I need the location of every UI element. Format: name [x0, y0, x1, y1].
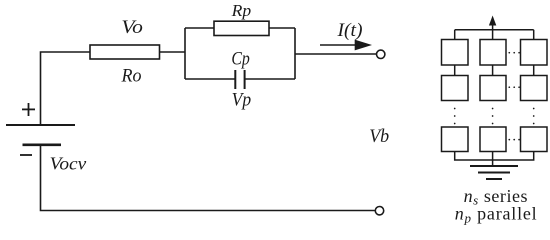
battery positive plate — [6, 124, 75, 126]
wire — [41, 52, 91, 125]
dots col2 vertical — [492, 108, 494, 125]
cell row1 col1 — [442, 40, 469, 66]
dots row1 — [508, 52, 520, 54]
terminal negative — [375, 207, 383, 215]
wire — [295, 53, 377, 55]
battery negative plate — [23, 144, 62, 147]
ground — [470, 166, 518, 179]
dots col1 vertical — [454, 108, 456, 125]
minus sign — [20, 154, 32, 156]
wire — [492, 152, 494, 167]
pack output arrow — [489, 16, 496, 31]
battery pack — [442, 16, 548, 180]
wire — [454, 30, 456, 40]
wire — [533, 30, 535, 40]
cell row2 col1 — [442, 76, 469, 101]
wire — [184, 28, 186, 79]
wire — [492, 30, 494, 40]
plus sign — [22, 103, 35, 116]
current arrow I(t) — [320, 40, 372, 51]
wire — [455, 29, 534, 31]
wire — [492, 65, 494, 76]
cell row1 col3 — [521, 40, 548, 66]
cell row2 col2 — [480, 76, 506, 101]
wire — [294, 28, 296, 79]
wire — [160, 51, 186, 53]
svg-text:Vocv: Vocv — [50, 153, 87, 173]
wire — [269, 27, 295, 29]
wire — [41, 145, 378, 211]
capacitor Cp — [235, 70, 244, 89]
dots col3 vertical — [533, 108, 535, 125]
terminal positive — [377, 50, 385, 58]
cell row2 col3 — [521, 76, 548, 101]
svg-text:Cp: Cp — [231, 49, 250, 69]
svg-text:Ro: Ro — [121, 66, 142, 86]
svg-text:Vb: Vb — [369, 127, 389, 147]
svg-text:Vp: Vp — [232, 91, 252, 111]
dots row2 — [508, 86, 520, 88]
cell row1 col2 — [480, 40, 506, 66]
svg-text:Rp: Rp — [231, 1, 252, 20]
resistor Ro — [90, 45, 160, 59]
cell row3 col1 — [442, 127, 469, 152]
cell row3 col2 — [480, 127, 506, 152]
svg-text:Vo: Vo — [121, 18, 143, 38]
cell row3 col3 — [521, 127, 548, 152]
wire — [185, 78, 235, 80]
dots row3 — [508, 139, 520, 141]
wire — [455, 152, 534, 161]
wire — [533, 65, 535, 76]
resistor Rp — [214, 21, 269, 35]
svg-text:I(t): I(t) — [336, 21, 362, 41]
wire — [454, 65, 456, 76]
wire — [245, 78, 295, 80]
wire — [185, 27, 214, 29]
